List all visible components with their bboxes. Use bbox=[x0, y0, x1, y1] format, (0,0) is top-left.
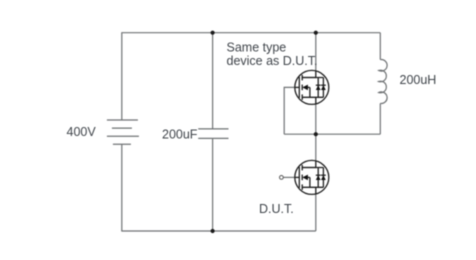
gate terminal circle of D.U.T. bbox=[280, 176, 284, 180]
node junction dot switch node bbox=[314, 132, 318, 136]
wire inductor branch lower bbox=[379, 103, 381, 134]
capacitor C1 200uF bbox=[198, 129, 228, 139]
svg-text:200uH: 200uH bbox=[400, 73, 437, 87]
svg-text:D.U.T.: D.U.T. bbox=[259, 202, 294, 216]
transistor Q1 (same type device as D.U.T.) bbox=[295, 70, 329, 104]
transistor Q2 D.U.T. bbox=[295, 160, 329, 194]
wire between mosfets bbox=[315, 104, 317, 162]
wire left branch lower bbox=[121, 144, 123, 231]
wire bottom rail bbox=[121, 230, 315, 232]
wire gate lead of D.U.T. bbox=[283, 176, 295, 178]
node junction dot top-right (mosfet branch to top rail) bbox=[314, 31, 318, 35]
wire capacitor branch upper bbox=[212, 33, 214, 129]
wire inductor branch upper bbox=[379, 33, 381, 60]
svg-text:device as D.U.T.: device as D.U.T. bbox=[227, 54, 318, 68]
wire mosfet branch lower bbox=[315, 194, 317, 232]
svg-text:Same type: Same type bbox=[227, 40, 287, 54]
node junction dot top-left (cap to top rail) bbox=[211, 31, 215, 35]
wire capacitor branch lower bbox=[212, 138, 214, 231]
node junction dot bottom (cap to bottom rail) bbox=[211, 229, 215, 233]
battery B1 400V bbox=[107, 120, 139, 144]
wire mid rail (switch node) bbox=[284, 133, 380, 135]
wire mosfet branch upper bbox=[315, 33, 317, 72]
svg-text:200uF: 200uF bbox=[162, 127, 198, 141]
wire left branch upper bbox=[121, 33, 123, 120]
wire gate tie of upper mosfet bbox=[284, 87, 295, 134]
svg-text:400V: 400V bbox=[67, 125, 97, 139]
inductor L1 200uH bbox=[379, 60, 387, 104]
wire top rail bbox=[121, 32, 380, 34]
